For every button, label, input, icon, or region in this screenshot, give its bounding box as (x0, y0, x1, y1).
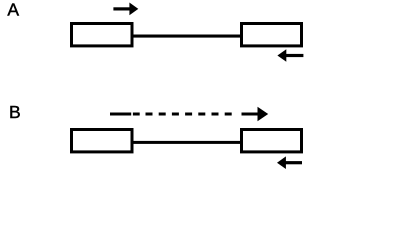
reverse primer arrow B (left-pointing) (277, 156, 302, 169)
right primer box B (242, 130, 302, 152)
template line A (132, 35, 242, 38)
template line B (132, 141, 242, 144)
svg-text:B: B (9, 102, 21, 122)
reverse primer arrow A (left-pointing) (277, 49, 303, 62)
left primer box B (72, 130, 133, 152)
forward primer arrow A (right-pointing) (113, 3, 138, 16)
dashed amplification arrow B (right-pointing) (110, 107, 268, 122)
left primer box A (72, 24, 133, 46)
right primer box A (242, 24, 302, 46)
svg-text:A: A (7, 0, 19, 20)
